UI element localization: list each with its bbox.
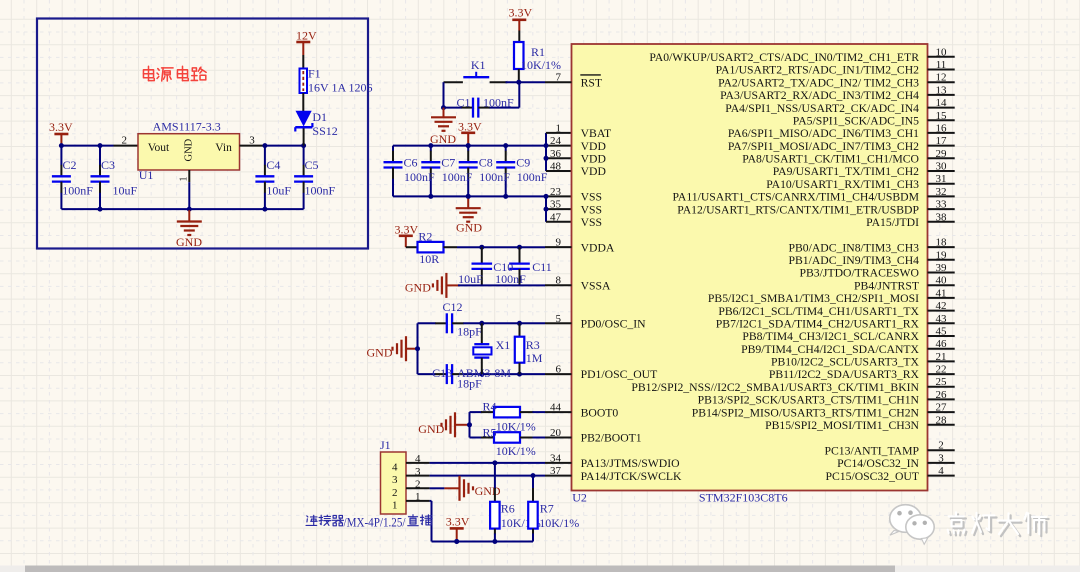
svg-text:R3: R3: [526, 338, 540, 352]
svg-text:C12: C12: [443, 300, 463, 314]
svg-text:R4: R4: [483, 400, 497, 414]
svg-text:100nF: 100nF: [517, 170, 548, 184]
svg-text:PB5/I2C1_SMBA1/TIM3_CH2/SPI1_M: PB5/I2C1_SMBA1/TIM3_CH2/SPI1_MOSI: [708, 292, 919, 305]
svg-text:PB2/BOOT1: PB2/BOOT1: [581, 432, 642, 445]
svg-text:PD1/OSC_OUT: PD1/OSC_OUT: [581, 368, 658, 381]
svg-text:PB7/I2C1_SDA/TIM4_CH2/USART1_R: PB7/I2C1_SDA/TIM4_CH2/USART1_RX: [716, 318, 920, 331]
svg-text:18pF: 18pF: [457, 325, 482, 339]
svg-text:16V 1A 1206: 16V 1A 1206: [308, 81, 372, 95]
svg-text:47: 47: [550, 211, 562, 223]
svg-text:39: 39: [936, 262, 948, 274]
svg-text:2: 2: [938, 440, 944, 452]
svg-text:3: 3: [415, 466, 421, 478]
svg-text:VDD: VDD: [581, 140, 606, 153]
svg-text:PA9/USART1_TX/TIM1_CH2: PA9/USART1_TX/TIM1_CH2: [773, 165, 919, 178]
svg-text:PA3/USART2_RX/ADC_IN3/TIM2_CH4: PA3/USART2_RX/ADC_IN3/TIM2_CH4: [720, 89, 919, 102]
svg-text:VDDA: VDDA: [581, 241, 615, 254]
svg-text:C5: C5: [305, 158, 319, 172]
svg-text:100nF: 100nF: [305, 184, 336, 198]
svg-text:36: 36: [550, 148, 562, 160]
svg-text:GND: GND: [405, 281, 431, 295]
svg-text:1M: 1M: [526, 351, 543, 365]
svg-text:44: 44: [550, 402, 562, 414]
svg-text:PB15/SPI2_MOSI/TIM1_CH3N: PB15/SPI2_MOSI/TIM1_CH3N: [765, 419, 919, 432]
svg-text:PA2/USART2_TX/ADC_IN2/ TIM2_CH: PA2/USART2_TX/ADC_IN2/ TIM2_CH3: [718, 76, 919, 89]
svg-text:U2: U2: [572, 491, 587, 505]
svg-text:PA11/USART1_CTS/CANRX/TIM1_CH4: PA11/USART1_CTS/CANRX/TIM1_CH4/USBDM: [672, 191, 919, 204]
svg-text:3: 3: [938, 452, 944, 464]
svg-text:42: 42: [936, 300, 947, 312]
svg-text:45: 45: [936, 326, 948, 338]
svg-text:100nF: 100nF: [404, 170, 435, 184]
svg-text:PB12/SPI2_NSS//I2C2_SMBA1/USAR: PB12/SPI2_NSS//I2C2_SMBA1/USART3_CK/TIM1…: [631, 381, 919, 394]
svg-text:PA12/USART1_RTS/CANTX/TIM1_ETR: PA12/USART1_RTS/CANTX/TIM1_ETR/USBDP: [677, 203, 919, 216]
svg-text:24: 24: [550, 135, 562, 147]
svg-text:STM32F103C8T6: STM32F103C8T6: [699, 491, 788, 505]
svg-text:100nF: 100nF: [442, 170, 473, 184]
svg-text:27: 27: [936, 402, 948, 414]
svg-text:Vin: Vin: [215, 142, 232, 154]
svg-text:GND: GND: [418, 422, 444, 436]
svg-text:22: 22: [936, 364, 947, 376]
svg-text:PC14/OSC32_IN: PC14/OSC32_IN: [837, 457, 919, 470]
svg-text:30: 30: [936, 161, 948, 173]
svg-text:PC13/ANTI_TAMP: PC13/ANTI_TAMP: [824, 444, 919, 457]
svg-text:37: 37: [550, 465, 562, 477]
svg-text:VSS: VSS: [581, 191, 602, 204]
svg-text:R6: R6: [501, 502, 515, 516]
svg-text:C6: C6: [404, 156, 418, 170]
svg-text:PA4/SPI1_NSS/USART2_CK/ADC_IN4: PA4/SPI1_NSS/USART2_CK/ADC_IN4: [725, 102, 919, 115]
svg-text:4: 4: [392, 462, 398, 474]
svg-text:10K/1%: 10K/1%: [521, 58, 561, 72]
svg-text:12: 12: [936, 72, 947, 84]
svg-text:31: 31: [936, 173, 947, 185]
svg-text:PA13/JTMS/SWDIO: PA13/JTMS/SWDIO: [581, 457, 680, 470]
svg-text:19: 19: [936, 249, 948, 261]
svg-text:PA1/USART2_RTS/ADC_IN1/TIM2_CH: PA1/USART2_RTS/ADC_IN1/TIM2_CH2: [716, 64, 920, 77]
svg-text:C7: C7: [441, 156, 455, 170]
svg-text:PB8/TIM4_CH3/I2C1_SCL/CANRX: PB8/TIM4_CH3/I2C1_SCL/CANRX: [742, 330, 919, 343]
svg-text:VSSA: VSSA: [581, 279, 611, 292]
svg-text:2: 2: [415, 479, 421, 491]
svg-text:17: 17: [936, 135, 948, 147]
svg-text:PA8/USART1_CK/TIM1_CH1/MCO: PA8/USART1_CK/TIM1_CH1/MCO: [742, 153, 919, 166]
svg-text:1: 1: [179, 177, 190, 182]
svg-text:C2: C2: [63, 158, 77, 172]
svg-text:F1: F1: [308, 67, 321, 81]
svg-text:11: 11: [936, 59, 947, 71]
svg-text:VBAT: VBAT: [581, 127, 612, 140]
svg-text:10K/1%: 10K/1%: [539, 516, 579, 530]
svg-text:PB13/SPI2_SCK/USART3_CTS/TIM1_: PB13/SPI2_SCK/USART3_CTS/TIM1_CH1N: [698, 394, 920, 407]
svg-text:2: 2: [392, 487, 398, 499]
svg-text:GND: GND: [184, 138, 195, 161]
svg-text:K1: K1: [471, 58, 486, 72]
svg-text:1: 1: [392, 500, 398, 512]
svg-text:3.3V: 3.3V: [395, 223, 419, 237]
svg-text:C9: C9: [516, 156, 530, 170]
svg-text:VSS: VSS: [581, 216, 602, 229]
svg-text:/MX-4P/1.25/: /MX-4P/1.25/: [344, 516, 406, 530]
svg-text:C11: C11: [532, 260, 552, 274]
svg-text:C8: C8: [479, 156, 493, 170]
svg-text:20: 20: [550, 427, 562, 439]
svg-text:41: 41: [936, 287, 947, 299]
svg-text:SS12: SS12: [312, 124, 337, 138]
svg-text:100nF: 100nF: [62, 184, 93, 198]
svg-text:PC15/OSC32_OUT: PC15/OSC32_OUT: [825, 470, 919, 483]
svg-text:Vout: Vout: [148, 142, 170, 154]
svg-text:3.3V: 3.3V: [458, 120, 482, 134]
svg-text:3.3V: 3.3V: [509, 6, 533, 20]
svg-text:RST: RST: [581, 76, 602, 89]
svg-text:AMS1117-3.3: AMS1117-3.3: [153, 120, 221, 134]
svg-text:21: 21: [936, 351, 947, 363]
svg-text:PB9/TIM4_CH4/I2C1_SDA/CANTX: PB9/TIM4_CH4/I2C1_SDA/CANTX: [741, 343, 919, 356]
svg-text:R1: R1: [531, 45, 545, 59]
svg-text:43: 43: [936, 313, 948, 325]
svg-text:46: 46: [936, 338, 948, 350]
svg-text:4: 4: [415, 453, 421, 465]
svg-text:C3: C3: [101, 158, 115, 172]
svg-text:5: 5: [556, 313, 562, 325]
svg-text:25: 25: [936, 376, 948, 388]
svg-text:GND: GND: [456, 221, 482, 235]
svg-text:3.3V: 3.3V: [446, 515, 470, 529]
svg-text:16: 16: [936, 122, 948, 134]
svg-text:34: 34: [550, 452, 562, 464]
svg-text:GND: GND: [475, 484, 501, 498]
svg-text:PB6/I2C1_SCL/TIM4_CH1/USART1_T: PB6/I2C1_SCL/TIM4_CH1/USART1_TX: [718, 305, 919, 318]
svg-text:10R: 10R: [419, 252, 439, 266]
svg-text:9: 9: [556, 237, 562, 249]
svg-text:PB1/ADC_IN9/TIM3_CH4: PB1/ADC_IN9/TIM3_CH4: [788, 254, 919, 267]
svg-text:10uF: 10uF: [266, 184, 291, 198]
svg-text:C4: C4: [266, 158, 280, 172]
svg-text:C13: C13: [432, 366, 452, 380]
svg-text:18: 18: [936, 237, 948, 249]
svg-text:PA6/SPI1_MISO/ADC_IN6/TIM3_CH1: PA6/SPI1_MISO/ADC_IN6/TIM3_CH1: [728, 127, 919, 140]
svg-text:10: 10: [936, 46, 948, 58]
svg-text:3: 3: [392, 474, 398, 486]
svg-text:PB14/SPI2_MISO/USART3_RTS/TIM1: PB14/SPI2_MISO/USART3_RTS/TIM1_CH2N: [692, 406, 920, 419]
svg-text:38: 38: [936, 211, 948, 223]
svg-text:PA7/SPI1_MOSI/ADC_IN7/TIM3_CH2: PA7/SPI1_MOSI/ADC_IN7/TIM3_CH2: [728, 140, 919, 153]
svg-text:VDD: VDD: [581, 165, 606, 178]
svg-text:35: 35: [550, 199, 562, 211]
svg-text:PB10/I2C2_SCL/USART3_TX: PB10/I2C2_SCL/USART3_TX: [771, 356, 920, 369]
svg-text:PB3/JTDO/TRACESWO: PB3/JTDO/TRACESWO: [800, 267, 919, 280]
svg-text:26: 26: [936, 389, 948, 401]
svg-text:R7: R7: [540, 502, 554, 516]
svg-text:J1: J1: [380, 438, 391, 452]
svg-text:3.3V: 3.3V: [49, 120, 73, 134]
svg-text:13: 13: [936, 84, 948, 96]
svg-text:100nF: 100nF: [483, 96, 514, 110]
svg-text:18pF: 18pF: [457, 377, 482, 391]
svg-text:10K/1%: 10K/1%: [496, 444, 536, 458]
svg-text:D1: D1: [312, 110, 327, 124]
svg-text:1: 1: [415, 491, 421, 503]
svg-text:10uF: 10uF: [458, 272, 483, 286]
svg-text:32: 32: [936, 186, 947, 198]
svg-text:U1: U1: [139, 168, 154, 182]
svg-text:6: 6: [556, 364, 562, 376]
svg-text:GND: GND: [430, 132, 456, 146]
svg-text:33: 33: [936, 199, 948, 211]
svg-text:100nF: 100nF: [479, 170, 510, 184]
svg-text:29: 29: [936, 148, 948, 160]
svg-text:GND: GND: [176, 235, 202, 249]
svg-text:PB11/I2C2_SDA/USART3_RX: PB11/I2C2_SDA/USART3_RX: [769, 368, 920, 381]
svg-text:PA5/SPI1_SCK/ADC_IN5: PA5/SPI1_SCK/ADC_IN5: [793, 115, 919, 128]
svg-text:R2: R2: [418, 230, 432, 244]
svg-text:40: 40: [936, 275, 948, 287]
svg-text:R5: R5: [483, 426, 497, 440]
svg-text:GND: GND: [367, 346, 393, 360]
svg-text:15: 15: [936, 110, 948, 122]
svg-text:1: 1: [556, 122, 562, 134]
svg-text:7: 7: [556, 72, 562, 84]
svg-text:10uF: 10uF: [113, 184, 138, 198]
svg-text:PA0/WKUP/USART2_CTS/ADC_IN0/TI: PA0/WKUP/USART2_CTS/ADC_IN0/TIM2_CH1_ETR: [649, 51, 919, 64]
svg-text:12V: 12V: [296, 29, 317, 43]
svg-text:PA15/JTDI: PA15/JTDI: [866, 216, 919, 229]
svg-text:PA14/JTCK/SWCLK: PA14/JTCK/SWCLK: [581, 470, 682, 483]
svg-text:100nF: 100nF: [495, 272, 526, 286]
svg-text:4: 4: [938, 465, 944, 477]
svg-text:PA10/USART1_RX/TIM1_CH3: PA10/USART1_RX/TIM1_CH3: [766, 178, 919, 191]
svg-text:BOOT0: BOOT0: [581, 406, 619, 419]
svg-text:X1: X1: [496, 338, 511, 352]
svg-text:PB0/ADC_IN8/TIM3_CH3: PB0/ADC_IN8/TIM3_CH3: [788, 241, 919, 254]
svg-text:23: 23: [550, 186, 562, 198]
svg-text:48: 48: [550, 161, 562, 173]
svg-text:PB4/JNTRST: PB4/JNTRST: [854, 279, 919, 292]
svg-text:VSS: VSS: [581, 203, 602, 216]
svg-text:2: 2: [122, 135, 128, 147]
svg-text:8: 8: [556, 275, 562, 287]
svg-text:VDD: VDD: [581, 153, 606, 166]
svg-text:28: 28: [936, 414, 948, 426]
svg-text:14: 14: [936, 97, 948, 109]
svg-text:PD0/OSC_IN: PD0/OSC_IN: [581, 318, 647, 331]
svg-text:C1: C1: [457, 96, 471, 110]
